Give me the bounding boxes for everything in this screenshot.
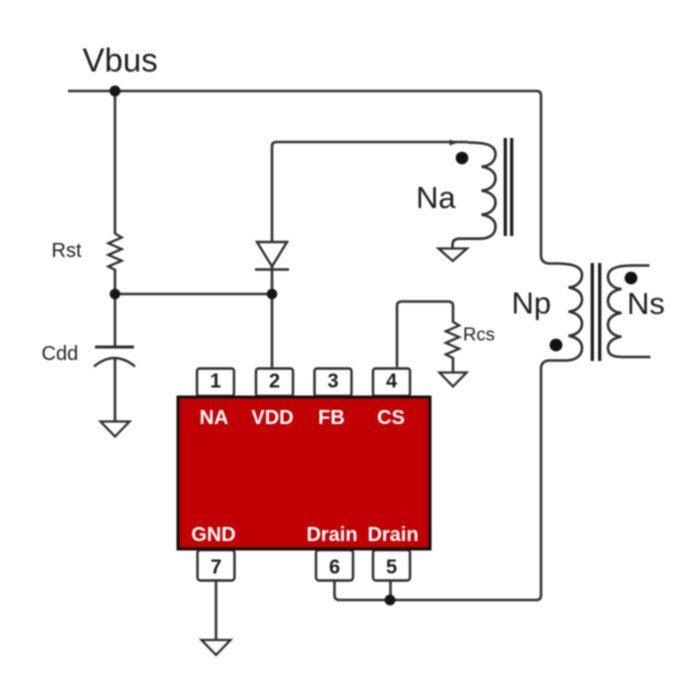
svg-text:Na: Na (416, 180, 456, 215)
svg-text:Ns: Ns (627, 286, 665, 321)
svg-text:FB: FB (318, 407, 345, 429)
svg-text:Np: Np (512, 286, 552, 321)
svg-text:4: 4 (386, 371, 398, 393)
svg-text:Rst: Rst (52, 240, 82, 262)
svg-text:CS: CS (377, 407, 405, 429)
svg-text:Drain: Drain (367, 524, 418, 546)
svg-text:1: 1 (210, 371, 221, 393)
svg-text:Cdd: Cdd (42, 343, 79, 365)
svg-text:GND: GND (191, 524, 235, 546)
svg-text:2: 2 (269, 371, 280, 393)
svg-text:Drain: Drain (306, 524, 357, 546)
svg-text:5: 5 (386, 557, 397, 579)
svg-text:NA: NA (200, 407, 229, 429)
svg-text:Vbus: Vbus (83, 42, 158, 79)
svg-text:Rcs: Rcs (463, 324, 495, 345)
svg-text:VDD: VDD (251, 407, 293, 429)
svg-text:6: 6 (329, 557, 340, 579)
svg-text:7: 7 (210, 557, 221, 579)
svg-text:3: 3 (327, 371, 338, 393)
